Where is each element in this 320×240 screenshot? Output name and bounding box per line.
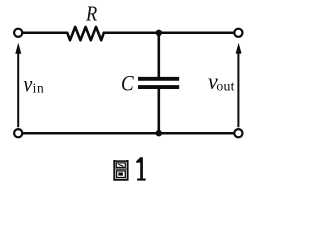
svg-text:C: C bbox=[121, 70, 135, 96]
svg-text:v: v bbox=[23, 71, 32, 97]
resistor R bbox=[67, 27, 104, 40]
capacitor C plates bbox=[138, 79, 179, 87]
svg-text:out: out bbox=[216, 79, 234, 94]
wire capacitor upper lead bbox=[158, 33, 161, 77]
arrow vin bbox=[15, 43, 21, 128]
terminal top-left bbox=[14, 29, 22, 37]
wire top-left segment bbox=[23, 32, 68, 35]
caption number 1 bbox=[136, 157, 146, 180]
wire bottom rail bbox=[23, 132, 234, 135]
caption figure glyph 圖 bbox=[113, 160, 128, 180]
terminal bottom-right bbox=[234, 129, 242, 137]
svg-text:R: R bbox=[85, 4, 97, 26]
label vin bbox=[23, 71, 44, 97]
label C bbox=[121, 70, 135, 96]
wire capacitor lower lead bbox=[158, 89, 161, 133]
node junction top bbox=[156, 30, 162, 36]
wire top-right segment bbox=[103, 32, 234, 35]
label vout bbox=[208, 68, 235, 94]
node junction bottom bbox=[156, 130, 162, 136]
label R bbox=[85, 4, 97, 26]
terminal top-right bbox=[234, 29, 242, 37]
arrow vout bbox=[236, 43, 242, 127]
svg-text:in: in bbox=[33, 81, 45, 96]
terminal bottom-left bbox=[14, 129, 22, 137]
